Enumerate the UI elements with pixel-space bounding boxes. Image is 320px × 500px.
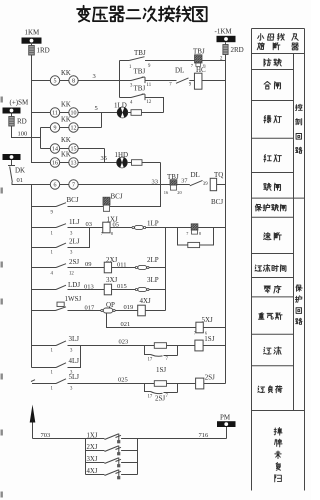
wire 4LJ join — [68, 346, 81, 368]
svg-text:015: 015 — [117, 283, 127, 290]
svg-text:10: 10 — [71, 111, 77, 117]
wire signal bus vertical — [165, 228, 167, 311]
svg-text:13: 13 — [71, 161, 77, 167]
svg-text:4XJ: 4XJ — [140, 297, 152, 305]
wire HC to rail — [202, 80, 226, 82]
table row 过负荷 — [258, 386, 265, 392]
wire signal branches right bus — [137, 439, 139, 475]
svg-text:DK: DK — [15, 167, 25, 175]
wire 33 trip row — [78, 184, 170, 186]
wire 01 — [12, 182, 50, 185]
wire to DL contact — [145, 80, 177, 82]
wire 716 — [138, 438, 227, 440]
svg-text:-1KM: -1KM — [215, 27, 233, 35]
svg-text:2RD: 2RD — [231, 46, 244, 54]
svg-text:LDJ: LDJ — [68, 281, 80, 289]
wire branch KK row2 — [32, 112, 51, 114]
wire 4XJ to bus — [145, 310, 165, 312]
wire 03 — [68, 227, 103, 229]
table row 合闸 — [264, 82, 270, 89]
wire branch KK row1 — [32, 80, 51, 82]
table row 过流时间 — [255, 265, 262, 271]
contact 2LJ — [32, 247, 57, 249]
svg-text:013: 013 — [84, 283, 94, 290]
wire 2 to right rail — [202, 60, 226, 62]
svg-text:TBJ: TBJ — [134, 85, 146, 93]
wire BCJ to trip row — [110, 185, 161, 207]
contact 1LJ — [32, 227, 57, 229]
svg-text:2SJ: 2SJ — [155, 394, 165, 402]
terminal DK strip — [3, 154, 21, 160]
svg-text:TBJ: TBJ — [134, 68, 146, 76]
svg-text:KK: KK — [61, 117, 71, 124]
svg-text:1WSJ: 1WSJ — [65, 295, 82, 303]
wire 100 — [12, 126, 41, 138]
svg-text:5: 5 — [95, 105, 98, 112]
table cell 掉牌未复归 — [274, 427, 282, 435]
terminal PM — [226, 427, 228, 439]
svg-text:1RD: 1RD — [37, 47, 50, 55]
svg-text:09: 09 — [85, 261, 92, 268]
wire right rail — [225, 55, 227, 384]
svg-text:BCJ: BCJ — [211, 198, 223, 206]
contact 2SJ delay branch — [145, 384, 151, 392]
svg-text:2LP: 2LP — [147, 256, 159, 264]
contact 1SJ delay branch — [145, 346, 151, 355]
svg-text:3XJ: 3XJ — [87, 456, 98, 463]
table row 速断 — [264, 233, 271, 240]
svg-text:12: 12 — [147, 100, 152, 105]
table col 控制回路 — [295, 104, 302, 110]
contact TBJ 4-12 — [120, 97, 132, 99]
wire to BCJ coil — [68, 206, 104, 208]
wire left rail lower — [31, 185, 33, 368]
svg-text:33: 33 — [152, 179, 159, 186]
svg-text:KK: KK — [61, 70, 71, 77]
svg-text:2XJ: 2XJ — [87, 444, 98, 451]
wire 35 to lamp 1HD — [78, 162, 117, 164]
wire 5XJ to rail — [203, 327, 225, 329]
wire 019 — [115, 310, 138, 312]
svg-text:3LP: 3LP — [147, 276, 159, 284]
svg-text:12: 12 — [71, 126, 77, 132]
scan edge marks — [1, 97, 3, 103]
svg-text:BCJ: BCJ — [67, 196, 79, 204]
svg-text:03: 03 — [86, 221, 93, 228]
resistor 1HD — [127, 162, 131, 164]
svg-text:QP: QP — [106, 301, 115, 309]
svg-text:17: 17 — [148, 395, 153, 400]
svg-text:716: 716 — [199, 432, 210, 439]
switch KK contacts 6-7 — [50, 180, 59, 189]
wire TQ to rail — [217, 184, 226, 186]
wire KK12 join — [78, 127, 101, 129]
svg-text:1LP: 1LP — [147, 219, 159, 227]
resistor 1SJ row — [154, 343, 166, 349]
switch DK — [11, 160, 13, 165]
svg-text:11: 11 — [147, 83, 152, 88]
svg-text:4XJ: 4XJ — [87, 468, 98, 475]
svg-text:11: 11 — [52, 111, 58, 117]
wire TBJ12 down to lamp row — [145, 98, 164, 113]
svg-text:14: 14 — [52, 147, 58, 153]
fuse 1RD — [31, 44, 33, 46]
wire 015 — [112, 289, 136, 291]
svg-text:TBJ: TBJ — [134, 49, 146, 57]
wire lamp to TBJ — [142, 112, 164, 114]
coil TBJ parallel — [191, 224, 198, 230]
wire down to trip row — [160, 163, 162, 185]
svg-text:PM: PM — [220, 414, 231, 422]
svg-text:3XJ: 3XJ — [106, 276, 118, 284]
wire signal branches left bus — [85, 439, 87, 475]
wire 2LP to bus — [149, 267, 166, 269]
svg-text:2SJ: 2SJ — [69, 258, 79, 266]
wire 05 — [110, 227, 132, 229]
wire lamp 1HD right — [142, 162, 161, 164]
svg-text:1KM: 1KM — [25, 29, 41, 37]
table row 保护跳闸 — [255, 204, 261, 211]
svg-text:8: 8 — [199, 231, 201, 236]
wire block to rail — [198, 227, 226, 229]
svg-text:8: 8 — [72, 79, 75, 85]
contact LDJ — [32, 289, 57, 291]
svg-text:15: 15 — [71, 147, 77, 153]
wire 3 — [78, 80, 128, 82]
contact TBJ 1-9 — [120, 60, 130, 62]
contact DL 39 — [190, 180, 203, 185]
svg-text:3LJ: 3LJ — [69, 335, 80, 343]
table row 跳闸 — [264, 183, 271, 190]
contact 4LJ — [32, 367, 57, 369]
contact 2SJ — [32, 267, 57, 269]
svg-text:01: 01 — [17, 177, 24, 184]
table row 防跳 — [264, 59, 271, 67]
wire 011 — [112, 267, 136, 269]
fuse RD — [11, 114, 13, 117]
svg-text:1SJ: 1SJ — [156, 366, 166, 374]
wire to 2SJ coil — [167, 383, 196, 385]
wire 017 — [68, 310, 101, 312]
table frame — [252, 28, 305, 30]
resistor parallel branch — [178, 228, 188, 246]
svg-text:DL: DL — [191, 171, 200, 179]
svg-text:16: 16 — [52, 161, 58, 167]
wire 2LJ join — [68, 228, 90, 248]
svg-text:TBJ: TBJ — [193, 47, 205, 55]
table row 绿灯 — [264, 115, 271, 122]
node 703 arrow — [32, 423, 34, 439]
svg-text:RD: RD — [17, 118, 27, 126]
wire 021 — [107, 314, 196, 328]
svg-text:35: 35 — [101, 155, 108, 162]
switch KK contacts 14-15 — [50, 144, 59, 153]
svg-text:17: 17 — [148, 357, 153, 362]
svg-text:KK: KK — [61, 152, 71, 159]
svg-text:023: 023 — [119, 339, 129, 346]
table header 小母线及熔断器 — [258, 34, 264, 41]
contact 1WSJ — [32, 310, 56, 312]
svg-text:39: 39 — [203, 182, 208, 187]
svg-text:12: 12 — [69, 271, 74, 276]
link 2LP — [135, 266, 137, 268]
svg-text:011: 011 — [117, 262, 127, 269]
table row 红灯 — [264, 155, 271, 162]
svg-text:100: 100 — [18, 131, 28, 138]
svg-text:2SJ: 2SJ — [205, 374, 215, 382]
svg-text:BCJ: BCJ — [111, 193, 123, 201]
link 1LP — [132, 226, 134, 228]
wire 2SJ to rail — [204, 383, 226, 385]
table row 零序 — [264, 286, 270, 293]
svg-text:021: 021 — [121, 321, 131, 328]
svg-text:1SJ: 1SJ — [204, 335, 214, 343]
table col 保护回路 — [296, 285, 302, 292]
terminal 1KM — [22, 38, 42, 44]
table row 重瓦斯 — [259, 313, 264, 320]
svg-text:2LJ: 2LJ — [69, 237, 80, 245]
svg-text:5: 5 — [54, 79, 57, 85]
contact 3LJ — [32, 345, 57, 347]
svg-text:1LJ: 1LJ — [69, 218, 80, 226]
svg-text:7: 7 — [72, 183, 75, 189]
svg-text:017: 017 — [85, 305, 96, 312]
coil HC — [189, 80, 194, 82]
svg-text:019: 019 — [124, 304, 134, 311]
wire KK15 join — [78, 148, 104, 150]
svg-text:37: 37 — [181, 178, 187, 185]
switch KK contacts 11-10 — [50, 108, 59, 117]
wire 09 — [68, 267, 105, 269]
table row 过流 — [264, 347, 271, 354]
svg-text:KK: KK — [61, 137, 71, 144]
wire branch KK rows 9-14 — [40, 128, 42, 149]
link QP — [101, 309, 103, 311]
wire 025 — [68, 383, 155, 385]
svg-text:3: 3 — [93, 73, 96, 80]
svg-text:703: 703 — [41, 432, 51, 439]
svg-text:KK: KK — [61, 102, 71, 109]
wire to 1SJ coil — [167, 345, 195, 347]
wire to TBJ coil — [145, 60, 195, 62]
contact 5LJ — [31, 380, 35, 382]
wire 5 to lamp 1LD — [78, 112, 117, 114]
svg-text:6: 6 — [54, 183, 57, 189]
switch KK contacts 5-8 — [50, 76, 59, 85]
terminal -1KM — [217, 36, 236, 42]
wire 37 — [177, 184, 190, 186]
svg-text:05: 05 — [113, 222, 120, 229]
svg-text:5LJ: 5LJ — [69, 373, 80, 381]
resistor 2SJ row — [154, 381, 166, 387]
contact TBJ 3-11 — [120, 80, 132, 82]
switch KK contacts 9-12 — [50, 123, 59, 132]
wire 013 — [68, 289, 105, 291]
wire 703 — [33, 438, 86, 440]
wire 3LP to bus — [149, 289, 166, 291]
switch KK contacts 16-13 — [50, 158, 59, 167]
svg-text:DL: DL — [175, 66, 184, 74]
wire left rail upper — [32, 55, 51, 163]
wire TBJ block left bus — [119, 61, 121, 98]
link 3LP — [135, 288, 137, 290]
wire 1LP to parallel block — [145, 227, 191, 229]
contact BCJ — [32, 206, 57, 208]
svg-text:7: 7 — [186, 231, 188, 236]
title 变压器二次接线图 — [77, 6, 90, 22]
fuse 2RD — [225, 42, 227, 44]
resistor 1LD — [128, 112, 131, 114]
svg-text:025: 025 — [118, 376, 128, 383]
wire 1SJ to rail — [203, 345, 225, 347]
svg-text:9: 9 — [54, 126, 57, 132]
svg-text:4LJ: 4LJ — [69, 357, 80, 365]
svg-text:(+)SM: (+)SM — [10, 99, 30, 107]
wire 023 — [68, 345, 155, 347]
